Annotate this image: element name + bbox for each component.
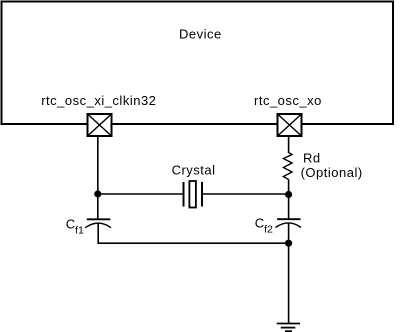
crystal Y1: [184, 181, 203, 208]
device outline: [2, 2, 394, 125]
pin rtc_osc_xo: [278, 114, 302, 136]
capacitor Cf2: [276, 219, 302, 227]
node B junction: [285, 191, 292, 198]
svg-text:Cf1: Cf1: [66, 217, 84, 237]
wire Cf2 to node C: [288, 223, 290, 243]
resistor Rd: [283, 153, 292, 180]
wire bottom rail: [98, 242, 288, 244]
pin rtc_osc_xi_clkin32: [88, 114, 112, 136]
wire xi pin to node A: [97, 137, 99, 194]
svg-text:rtc_osc_xi_clkin32: rtc_osc_xi_clkin32: [41, 93, 156, 108]
svg-text:rtc_osc_xo: rtc_osc_xo: [254, 93, 322, 108]
wire node A to Cf1: [97, 194, 99, 220]
wire crystal right to node B: [202, 193, 289, 195]
svg-text:Rd: Rd: [303, 151, 321, 166]
svg-text:(Optional): (Optional): [301, 165, 363, 180]
wire resistor to node B: [288, 180, 290, 195]
wire Cf1 to bottom: [97, 223, 99, 244]
capacitor Cf1: [85, 219, 111, 227]
wire node A to crystal left: [98, 193, 184, 195]
svg-text:Crystal: Crystal: [172, 162, 216, 177]
wire node C to ground: [288, 243, 290, 323]
node C junction: [285, 240, 292, 247]
svg-text:Cf2: Cf2: [255, 216, 273, 236]
svg-text:Device: Device: [179, 27, 222, 42]
node A junction: [94, 190, 101, 197]
wire node B to Cf2: [288, 195, 290, 220]
ground: [277, 324, 300, 332]
wire xo pin to resistor: [288, 137, 290, 153]
